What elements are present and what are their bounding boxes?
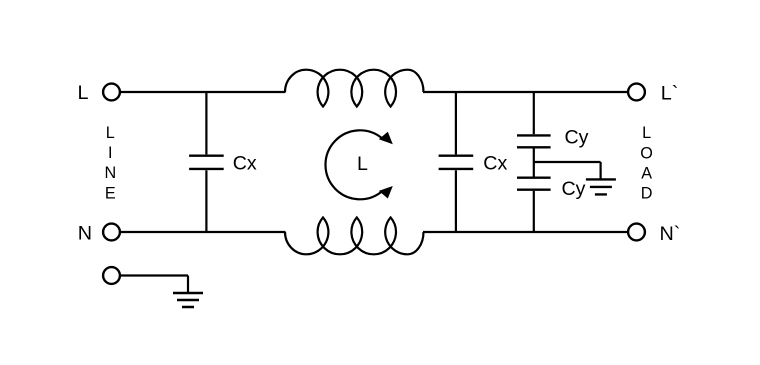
svg-text:E: E [105, 184, 116, 202]
svg-text:Cx: Cx [483, 152, 507, 174]
svg-text:Cy: Cy [565, 127, 589, 149]
wire Cy middle [534, 149, 601, 180]
terminal N [103, 224, 120, 241]
wire Cy vertical bottom [533, 191, 535, 232]
capacitor Cy1 [517, 135, 551, 147]
ground right [586, 179, 616, 194]
coupling arrow arc [325, 130, 382, 199]
svg-text:A: A [641, 164, 652, 182]
svg-text:N: N [78, 223, 92, 245]
svg-text:Cx: Cx [233, 152, 257, 174]
svg-text:L: L [106, 124, 115, 142]
svg-text:O: O [640, 145, 653, 163]
wire top-left [121, 91, 286, 93]
terminal L [103, 84, 120, 101]
wire bottom-right [423, 231, 627, 233]
arrowhead bottom [379, 186, 393, 199]
svg-text:D: D [641, 184, 653, 202]
terminal N' [628, 224, 645, 241]
ground left [173, 293, 203, 307]
inductor top winding [285, 70, 424, 107]
svg-text:I: I [108, 144, 113, 162]
svg-text:N`: N` [660, 223, 681, 245]
svg-text:L: L [78, 82, 89, 104]
wire bottom-left [121, 231, 286, 233]
arrowhead top [379, 132, 393, 145]
terminal GND [103, 267, 120, 284]
svg-text:L`: L` [661, 83, 679, 105]
wire ground-terminal [121, 276, 188, 294]
svg-text:L: L [642, 124, 651, 142]
wire Cy vertical top [533, 92, 535, 134]
capacitor Cx2 [439, 156, 474, 169]
wire top-right [423, 91, 627, 93]
wire Cx1 vertical [205, 92, 207, 232]
inductor bottom winding [285, 217, 424, 254]
wire Cx2 vertical [455, 92, 457, 232]
capacitor Cx1 [189, 156, 224, 169]
terminal L' [628, 84, 645, 101]
svg-text:Cy: Cy [562, 178, 586, 200]
svg-text:L: L [357, 153, 368, 175]
capacitor Cy2 [517, 178, 551, 190]
svg-text:N: N [104, 164, 116, 182]
